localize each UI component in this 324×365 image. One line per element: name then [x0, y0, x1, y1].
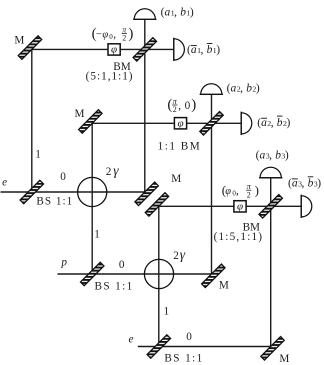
svg-text:BS 1:1: BS 1:1: [36, 196, 73, 208]
svg-text:φ: φ: [177, 118, 183, 130]
svg-text:): ): [128, 26, 133, 42]
svg-text:1: 1: [35, 149, 41, 161]
svg-text:2: 2: [122, 34, 126, 43]
svg-text:2: 2: [173, 250, 179, 262]
svg-text:0: 0: [186, 331, 192, 343]
svg-text:e: e: [129, 334, 134, 346]
svg-text:1: 1: [164, 306, 170, 318]
svg-text:2: 2: [173, 105, 177, 114]
svg-text:M: M: [219, 280, 229, 292]
svg-text:,: ,: [236, 185, 239, 197]
svg-text:1:1 BM: 1:1 BM: [158, 140, 202, 152]
svg-text:(1:5,1:1): (1:5,1:1): [214, 231, 264, 243]
svg-text:φ: φ: [237, 201, 243, 213]
svg-text:2: 2: [106, 166, 112, 178]
svg-text:): ): [191, 97, 196, 113]
svg-text:−: −: [96, 29, 102, 41]
svg-text:p: p: [60, 256, 67, 268]
svg-text:0: 0: [119, 259, 125, 271]
svg-text:φ: φ: [225, 186, 231, 197]
svg-text:(: (: [167, 97, 172, 113]
svg-text:,: ,: [178, 100, 181, 112]
svg-text:φ: φ: [111, 44, 117, 56]
svg-text:γ: γ: [113, 163, 119, 178]
svg-text:0: 0: [185, 100, 191, 112]
svg-text:,: ,: [113, 29, 116, 41]
svg-text:M: M: [14, 34, 24, 46]
svg-text:): ): [255, 182, 259, 197]
svg-text:2: 2: [247, 190, 251, 199]
svg-text:(5:1,1:1): (5:1,1:1): [86, 71, 134, 83]
svg-text:e: e: [2, 177, 7, 189]
svg-text:M: M: [279, 353, 289, 365]
svg-text:M: M: [75, 108, 85, 120]
svg-text:M: M: [171, 173, 181, 185]
svg-text:1: 1: [94, 229, 100, 241]
svg-text:γ: γ: [180, 247, 186, 262]
svg-text:BS 1:1: BS 1:1: [95, 280, 134, 292]
svg-text:BS 1:1: BS 1:1: [164, 353, 203, 365]
svg-text:φ: φ: [102, 30, 108, 41]
svg-text:0: 0: [60, 171, 66, 183]
